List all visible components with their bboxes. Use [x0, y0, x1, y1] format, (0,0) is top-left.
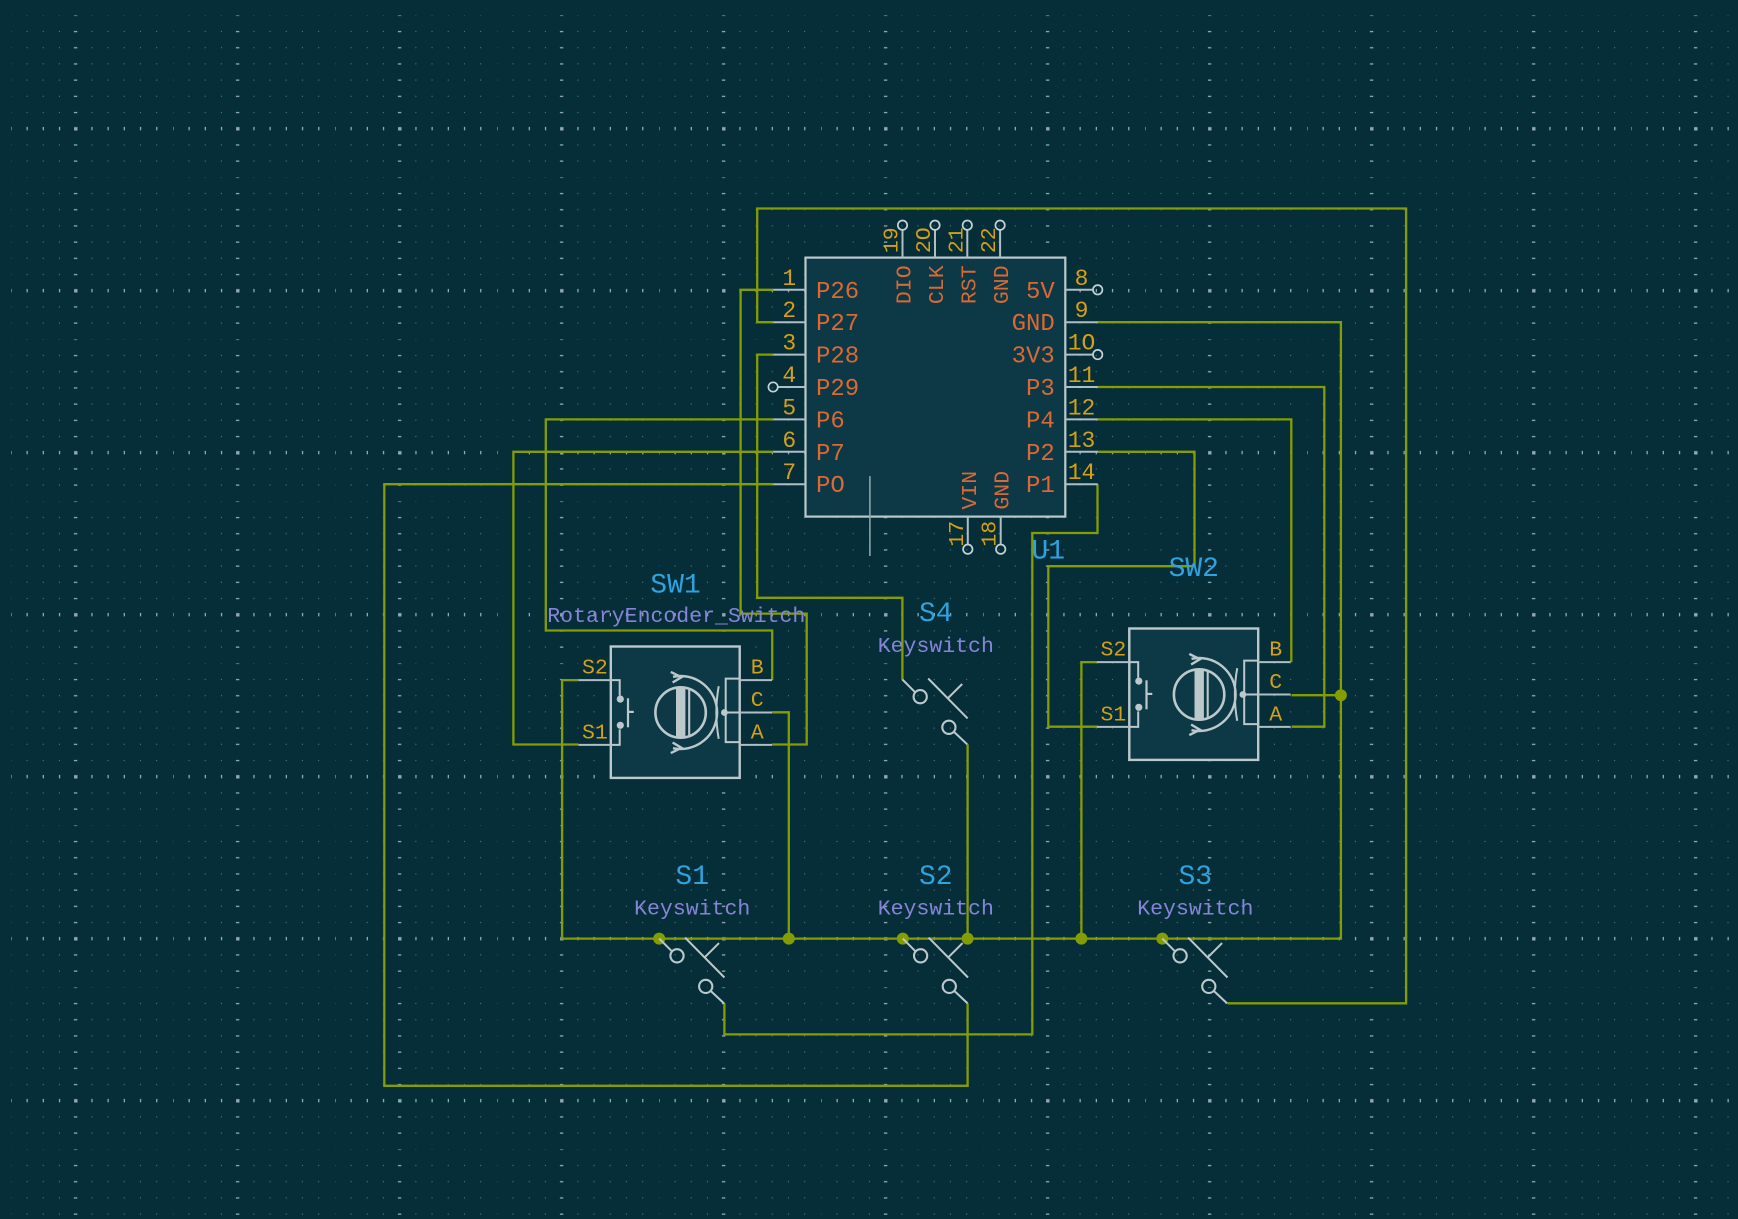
wire GND bus [562, 322, 1341, 938]
junction SW1.C on bus [783, 933, 795, 945]
SW2 pin A [1258, 726, 1290, 728]
svg-text:22: 22 [978, 227, 1002, 253]
SW1 rotor slot [676, 688, 685, 737]
keyswitch S4 symbol [902, 680, 915, 693]
pin 17 VIN [967, 517, 969, 545]
svg-text:Keyswitch: Keyswitch [1137, 898, 1253, 922]
SW2 rotation arc with arrows [1192, 658, 1236, 731]
svg-text:S3: S3 [1178, 862, 1212, 893]
pin 11 P3 [1065, 386, 1097, 388]
wire SW1.C to GND bus [772, 712, 789, 938]
keyswitch S3 symbol [1162, 939, 1175, 952]
svg-text:CLK: CLK [926, 265, 950, 304]
SW2 rotor circle [1174, 669, 1224, 719]
svg-text:9: 9 [1075, 298, 1089, 324]
wire P7 to SW1.S1 [513, 452, 773, 745]
SW2 pin B [1258, 661, 1290, 663]
svg-text:2: 2 [782, 298, 796, 324]
svg-text:3V3: 3V3 [1012, 344, 1055, 371]
wire P3 to SW2.A [1098, 387, 1325, 727]
junction SW2.S2 on bus [1075, 933, 1087, 945]
svg-text:U1: U1 [1032, 537, 1066, 568]
wire P2 to SW2.S1 [1048, 452, 1194, 727]
SW1 pin S1 [578, 744, 610, 746]
svg-text:RotaryEncoder_Switch: RotaryEncoder_Switch [547, 605, 805, 629]
pin 14 P1 [1065, 483, 1097, 485]
svg-text:Keyswitch: Keyswitch [878, 635, 994, 659]
svg-text:P29: P29 [816, 376, 859, 403]
svg-text:5V: 5V [1026, 279, 1055, 306]
SW2 wiper [1240, 691, 1247, 698]
junction S4 bottom on bus [962, 933, 974, 945]
wire S4 bottom to GND bus [966, 744, 968, 938]
svg-text:Keyswitch: Keyswitch [878, 898, 994, 922]
pin 6 P7 [773, 451, 805, 453]
SW1 rotor circle [655, 687, 705, 737]
svg-text:2O: 2O [913, 227, 937, 253]
svg-text:A: A [1269, 703, 1282, 727]
wire P6 to SW1.B [546, 419, 773, 680]
svg-text:18: 18 [979, 521, 1003, 547]
svg-text:S2: S2 [1100, 639, 1126, 663]
wire P28 to S4 [757, 355, 902, 680]
svg-text:P6: P6 [816, 408, 845, 435]
svg-text:4: 4 [782, 363, 796, 389]
wire P0 to S2 bottom [384, 484, 967, 1086]
svg-text:6: 6 [782, 428, 796, 454]
SW1 push-switch actuator [627, 698, 629, 727]
svg-text:P2: P2 [1026, 441, 1055, 468]
svg-text:SW2: SW2 [1169, 554, 1219, 585]
svg-text:12: 12 [1068, 395, 1096, 421]
svg-text:GND: GND [1012, 311, 1055, 338]
SW1 pin B [740, 679, 772, 681]
pin 13 P2 [1065, 451, 1097, 453]
SW2 rotor slot [1195, 670, 1204, 719]
svg-text:P3: P3 [1026, 376, 1055, 403]
svg-text:8: 8 [1075, 266, 1089, 292]
pin 1 P26 [773, 289, 805, 291]
svg-text:C: C [751, 689, 764, 713]
svg-text:GND: GND [991, 265, 1015, 304]
wire P26 to SW1.A [741, 290, 807, 745]
svg-text:GND: GND [992, 471, 1016, 510]
svg-text:S2: S2 [582, 657, 608, 681]
SW1 pin S2 [578, 679, 610, 681]
wire P1 to S1 bottom [724, 484, 1097, 1034]
svg-text:P7: P7 [816, 441, 845, 468]
svg-text:S1: S1 [582, 721, 608, 745]
svg-text:21: 21 [945, 227, 969, 253]
svg-text:C: C [1269, 671, 1282, 695]
SW1 pin C [740, 712, 772, 714]
pin 2 P27 [773, 321, 805, 323]
wire SW2.C to GND [1292, 694, 1341, 696]
SW2 pin S1 [1097, 726, 1129, 728]
svg-text:5: 5 [782, 395, 796, 421]
keyswitch S2 symbol [903, 939, 916, 952]
svg-text:VIN: VIN [959, 471, 983, 510]
svg-text:S2: S2 [919, 862, 953, 893]
svg-text:13: 13 [1068, 428, 1096, 454]
svg-text:B: B [751, 657, 764, 681]
IC U1 interior graphic line [869, 476, 871, 556]
SW2 push-switch contacts [1129, 662, 1138, 678]
svg-text:PO: PO [816, 473, 845, 500]
svg-text:S1: S1 [675, 862, 709, 893]
rotary encoder SW1 body [611, 647, 740, 778]
wire SW2.S2 to GND bus [1081, 662, 1097, 939]
svg-text:B: B [1269, 639, 1282, 663]
wire P27 to S3 [757, 209, 1406, 1004]
svg-text:DIO: DIO [894, 265, 918, 304]
svg-text:14: 14 [1068, 460, 1096, 486]
pin 8 5V [1065, 289, 1093, 291]
IC U1 body [806, 258, 1066, 517]
pin 12 P4 [1065, 418, 1097, 420]
pin 18 GND [1000, 517, 1002, 545]
SW1 pin A [740, 744, 772, 746]
pin 19 DIO [902, 230, 904, 258]
junction S1 top on bus [653, 933, 665, 945]
svg-text:11: 11 [1068, 363, 1096, 389]
svg-text:P26: P26 [816, 279, 859, 306]
svg-text:Keyswitch: Keyswitch [634, 898, 750, 922]
rotary encoder SW2 body [1129, 629, 1258, 760]
pin 10 3V3 [1065, 354, 1093, 356]
svg-text:17: 17 [946, 521, 970, 547]
SW2 encoder contacts bracket [1244, 661, 1258, 725]
svg-text:P4: P4 [1026, 408, 1055, 435]
SW1 push-switch contacts [611, 680, 620, 696]
svg-text:P28: P28 [816, 344, 859, 371]
SW2 push-switch actuator [1145, 680, 1147, 709]
svg-text:S1: S1 [1100, 703, 1126, 727]
svg-text:RST: RST [958, 265, 982, 304]
SW1 wiper [721, 709, 728, 716]
svg-text:3: 3 [782, 331, 796, 357]
pin 3 P28 [773, 354, 805, 356]
pin 22 GND [999, 230, 1001, 258]
wire P4 to SW2.B [1098, 419, 1292, 662]
pin 7 P0 [773, 483, 805, 485]
svg-text:S4: S4 [919, 599, 953, 630]
svg-text:1O: 1O [1068, 331, 1096, 357]
svg-text:P1: P1 [1026, 473, 1055, 500]
pin 21 RST [966, 230, 968, 258]
svg-text:P27: P27 [816, 311, 859, 338]
junction SW2.C GND tee [1335, 689, 1347, 701]
pin 9 GND [1065, 321, 1097, 323]
pin 4 P29 [778, 386, 806, 388]
svg-text:19: 19 [881, 227, 905, 253]
SW1 encoder contacts bracket [726, 679, 740, 743]
SW2 pin C [1258, 694, 1290, 696]
svg-text:7: 7 [782, 460, 796, 486]
SW2 pin S2 [1097, 661, 1129, 663]
pin 20 CLK [934, 230, 936, 258]
svg-text:SW1: SW1 [650, 571, 700, 602]
svg-text:A: A [751, 721, 764, 745]
junction S3 top on bus [1156, 933, 1168, 945]
SW1 rotation arc with arrows [673, 676, 717, 749]
junction S2 top on bus [897, 933, 909, 945]
keyswitch S1 symbol [659, 939, 672, 952]
pin 5 P6 [773, 418, 805, 420]
svg-text:1: 1 [782, 266, 796, 292]
